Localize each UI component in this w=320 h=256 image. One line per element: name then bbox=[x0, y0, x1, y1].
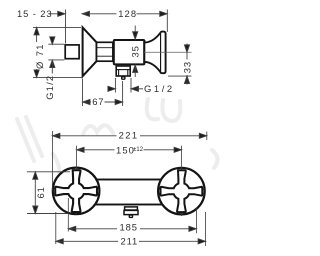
union nut bbox=[97, 42, 113, 61]
outlet (front) bbox=[125, 207, 138, 210]
svg-text:Ø 71: Ø 71 bbox=[34, 43, 45, 69]
dimension 185 bbox=[68, 226, 196, 231]
valve body bbox=[114, 40, 145, 64]
svg-text:221: 221 bbox=[119, 130, 139, 141]
handle neck bbox=[144, 33, 160, 71]
dimension 221 bbox=[52, 133, 206, 138]
dimension 150+-12 bbox=[77, 147, 182, 152]
outlet (side) bbox=[116, 66, 130, 76]
svg-text:67: 67 bbox=[92, 96, 104, 107]
svg-text:33: 33 bbox=[182, 61, 193, 73]
handle (side): slab bbox=[160, 32, 165, 74]
svg-text:128: 128 bbox=[118, 8, 137, 19]
witness lines front view bbox=[52, 131, 206, 246]
watermark bbox=[17, 99, 218, 184]
svg-text:G1/2: G1/2 bbox=[44, 75, 55, 100]
svg-text:G1/2: G1/2 bbox=[144, 83, 175, 94]
right escutcheon circle bbox=[158, 168, 205, 215]
dimension G1/2 outlet bbox=[108, 78, 144, 93]
centerline bbox=[144, 51, 192, 53]
dimension 35 bbox=[133, 26, 138, 78]
svg-text:15 - 23: 15 - 23 bbox=[17, 8, 53, 19]
svg-text:61: 61 bbox=[35, 186, 46, 198]
wall connection block bbox=[65, 45, 79, 59]
dimension 128 bbox=[82, 10, 167, 33]
left cross handle bbox=[55, 170, 97, 212]
svg-text:211: 211 bbox=[121, 235, 139, 246]
svg-text:185: 185 bbox=[120, 222, 138, 233]
body bar bbox=[62, 180, 196, 205]
escutcheon bbox=[83, 27, 97, 76]
dimension 211 bbox=[56, 239, 206, 244]
dimension 15-23 bbox=[49, 10, 66, 44]
dimension 61 bbox=[27, 172, 70, 214]
svg-text:±12: ±12 bbox=[133, 146, 144, 153]
dimension 33 bbox=[168, 44, 192, 85]
svg-text:35: 35 bbox=[130, 45, 141, 57]
right cross handle bbox=[161, 170, 203, 212]
dimension 67 bbox=[83, 79, 123, 107]
left escutcheon circle bbox=[53, 168, 100, 215]
dimension G1/2 left bbox=[48, 37, 64, 74]
dimension dia 71 bbox=[33, 27, 82, 77]
